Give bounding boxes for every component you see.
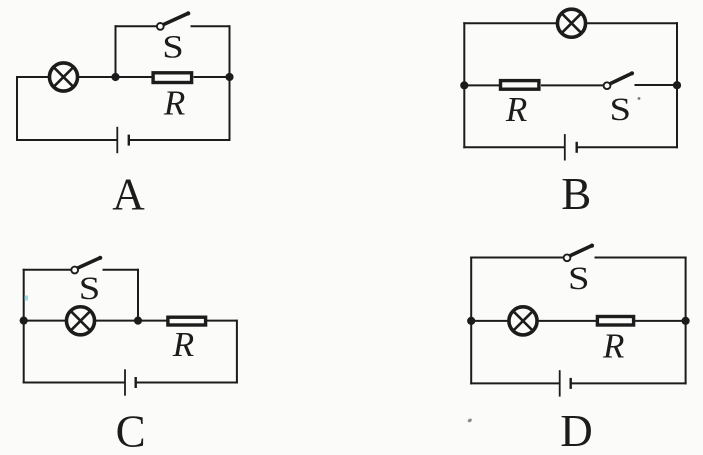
wire D top right horizontal [595,257,687,259]
switch S (circuit C) lever [78,258,101,268]
wire A resistor to right junction [194,76,230,78]
svg-text:S: S [162,30,184,66]
lamp L_B [557,9,585,37]
battery (circuit C) long plate [124,369,126,395]
lamp L_A [49,63,77,91]
wire D lamp to resistor [537,320,596,322]
wire B right vertical [676,22,678,148]
wire C top branch right vertical [137,269,139,321]
battery (circuit C) short plate [134,377,136,388]
svg-text:S: S [610,92,632,128]
wire D top left horizontal [470,257,563,259]
resistor R (circuit C) [168,317,206,325]
node D left junction [467,317,475,325]
svg-text:S: S [568,261,590,297]
svg-text:D: D [560,406,593,455]
wire B switch to right junction [635,84,678,86]
resistor R (circuit B) [501,81,539,90]
speck near S label B [638,97,641,100]
svg-text:R: R [602,327,624,366]
wire A bottom right horizontal [129,139,231,141]
wire B left vertical [463,22,465,148]
node C mid junction [134,317,142,325]
wire A parallel branch top left horizontal [115,25,157,27]
switch S (circuit D) pivot [564,254,571,261]
wire C right vertical [236,320,238,384]
wire B resistor to switch [541,84,603,86]
svg-text:R: R [163,84,185,123]
wire A right vertical [229,77,231,141]
resistor R (circuit A) [153,73,192,83]
node B left junction [460,81,468,89]
lamp L_C [66,307,94,335]
battery (circuit D) short plate [570,378,572,389]
wire A left vertical [16,76,18,141]
wire A parallel branch right vertical [229,25,231,77]
blue speck on C left wire [25,296,29,301]
battery (circuit A) long plate [116,127,118,153]
wire D left junction to lamp [471,320,509,322]
lamp L_D [509,307,537,335]
wire D bottom left horizontal [470,382,560,384]
switch S (circuit A) pivot [157,23,164,30]
wire C lamp to resistor [94,320,166,322]
wire C left vertical [23,269,25,384]
wire B top right segment [585,22,678,24]
wire C left junction to lamp [24,320,67,322]
wire B bottom right horizontal [577,146,678,148]
wire A parallel branch left vertical [115,25,117,77]
wire A parallel branch top right horizontal [191,25,230,27]
svg-text:B: B [561,169,591,219]
wire D resistor to right junction [635,320,686,322]
node A left junction [111,73,119,81]
switch S (circuit A) lever [163,13,188,24]
svg-text:S: S [79,271,101,307]
resistor R (circuit D) [597,317,633,326]
wire A bottom left horizontal [16,139,117,141]
switch S (circuit B) pivot [604,82,611,89]
wire A left segment to lamp [17,76,50,78]
switch S (circuit B) lever [610,73,632,84]
svg-text:R: R [172,325,194,364]
svg-text:C: C [116,406,146,455]
node C left junction [20,317,28,325]
switch S (circuit C) pivot [71,267,78,274]
wire B top left segment [463,22,557,24]
svg-text:R: R [505,90,527,129]
node B right junction [673,81,681,89]
wire D right vertical [685,257,687,385]
battery (circuit B) short plate [576,142,578,153]
node A right junction [225,73,233,81]
wire C top branch left horizontal [23,269,71,271]
wire B mid left segment [464,84,499,86]
speck left of D label [467,418,472,423]
battery (circuit A) short plate [128,135,130,146]
svg-text:A: A [112,170,145,220]
node D right junction [682,317,690,325]
switch S (circuit D) lever [570,245,592,255]
wire B bottom left horizontal [463,146,565,148]
wire C bottom right horizontal [136,382,238,384]
wire A lamp to resistor [77,76,151,78]
wire C top branch right horizontal [103,269,139,271]
wire D bottom right horizontal [571,382,687,384]
battery (circuit B) long plate [564,134,566,160]
wire C resistor to right [207,320,237,322]
wire C bottom left horizontal [23,382,125,384]
battery (circuit D) long plate [559,370,561,396]
wire D left vertical [470,257,472,385]
